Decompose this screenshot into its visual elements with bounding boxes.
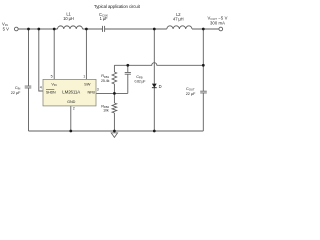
wire SHDN branch bbox=[39, 29, 43, 91]
junction SW node bbox=[85, 28, 88, 31]
capacitor Cout plates bbox=[200, 91, 207, 93]
resistor RFB1 bbox=[112, 72, 117, 84]
junction feedback / output column bbox=[202, 64, 205, 67]
output terminal bbox=[219, 27, 223, 31]
label Cin value bbox=[11, 85, 21, 95]
svg-text:3: 3 bbox=[97, 88, 99, 92]
inductor L2 bbox=[167, 26, 192, 29]
svg-text:5: 5 bbox=[51, 74, 53, 78]
op IC U1 LM2611A body bbox=[43, 79, 96, 106]
wire top rail between L1 and Ccuk bbox=[83, 28, 103, 30]
junction Vout node bbox=[202, 28, 205, 31]
junction RFB2 / bottom rail bbox=[113, 130, 116, 133]
wire NFB feedback lower bbox=[96, 92, 128, 94]
svg-text:25.4k: 25.4k bbox=[101, 79, 110, 83]
wire feedback column RFB bbox=[113, 65, 115, 131]
label VIN 5V bbox=[2, 22, 9, 32]
label RFB1 value bbox=[101, 73, 110, 83]
inductor L1 bbox=[58, 26, 83, 29]
svg-text:300 mA: 300 mA bbox=[210, 21, 225, 26]
wire SW pin branch bbox=[85, 29, 87, 79]
svg-text:1: 1 bbox=[83, 74, 85, 78]
input terminal bbox=[14, 27, 18, 31]
label L2 value bbox=[173, 12, 184, 21]
wire GND pin branch bbox=[70, 106, 72, 131]
junction GND pin / bottom rail bbox=[69, 130, 72, 133]
capacitor Cfb plates bbox=[125, 72, 131, 74]
diode D bbox=[152, 84, 157, 88]
junction NFB node bbox=[113, 92, 116, 95]
junction Cin / input rail bbox=[27, 28, 30, 31]
wire Cfb branch bbox=[127, 65, 129, 93]
svg-text:22 µF: 22 µF bbox=[11, 90, 21, 95]
wire top rail between Ccuk and L2 bbox=[105, 28, 167, 30]
label L1 value bbox=[63, 12, 74, 21]
svg-text:LM2611A: LM2611A bbox=[62, 90, 80, 95]
label RFB2 value bbox=[101, 104, 109, 113]
junction Cfb top bbox=[126, 64, 129, 67]
wire output column bbox=[202, 29, 204, 131]
svg-text:Typical application circuit: Typical application circuit bbox=[94, 4, 141, 9]
wire top rail right to output bbox=[192, 28, 219, 30]
svg-text:0.82 µF: 0.82 µF bbox=[135, 79, 146, 83]
svg-text:SHDN: SHDN bbox=[46, 90, 56, 94]
ground symbol bbox=[111, 133, 117, 138]
label Cout value bbox=[186, 86, 196, 96]
wire feedback top with hop over diode line bbox=[114, 63, 203, 66]
svg-text:1 µF: 1 µF bbox=[100, 16, 108, 21]
label VOUT bbox=[208, 16, 228, 26]
IC pin name SHDN with overline bbox=[46, 90, 56, 95]
wire diode branch bbox=[153, 29, 155, 131]
svg-text:5 V: 5 V bbox=[3, 27, 9, 32]
wire bottom ground rail bbox=[29, 130, 204, 132]
wire top rail left bbox=[18, 28, 57, 30]
svg-text:47 µH: 47 µH bbox=[173, 16, 184, 21]
junction diode / bottom rail bbox=[153, 130, 156, 133]
junction SHDN / input rail bbox=[37, 28, 40, 31]
svg-text:D: D bbox=[159, 84, 162, 89]
svg-text:10k: 10k bbox=[103, 109, 109, 113]
label Cfb value bbox=[135, 74, 146, 83]
svg-text:2: 2 bbox=[73, 106, 75, 110]
svg-text:GND: GND bbox=[67, 100, 75, 104]
resistor RFB2 bbox=[112, 103, 117, 113]
wire VIN pin branch bbox=[53, 29, 55, 79]
svg-text:NFB: NFB bbox=[88, 90, 96, 94]
capacitor Cin plates bbox=[25, 86, 32, 88]
svg-text:22 µF: 22 µF bbox=[186, 91, 196, 96]
svg-text:SW: SW bbox=[84, 81, 91, 86]
junction diode / node A bbox=[153, 28, 156, 31]
junction VIN pin / input rail bbox=[53, 28, 56, 31]
capacitor Ccuk plates bbox=[103, 26, 105, 32]
wire Cin branch bbox=[28, 29, 30, 131]
svg-text:4: 4 bbox=[40, 85, 42, 89]
label Ccuk value bbox=[99, 12, 108, 21]
svg-text:VIN: VIN bbox=[51, 82, 56, 87]
svg-text:10 µH: 10 µH bbox=[63, 16, 74, 21]
